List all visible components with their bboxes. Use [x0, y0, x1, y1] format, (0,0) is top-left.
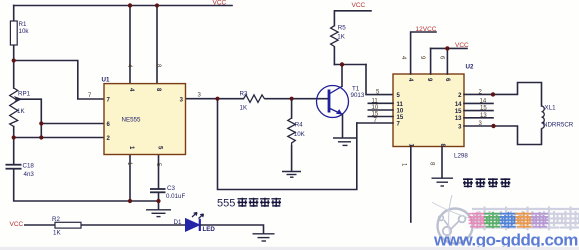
wire pin2: [14, 137, 104, 139]
wire pin8 bottom to ground: [441, 147, 443, 178]
svg-text:R2: R2: [52, 216, 60, 223]
ground under T1 emitter: [333, 138, 356, 145]
svg-text:R4: R4: [295, 122, 303, 129]
ground under U2 pin8: [432, 178, 454, 186]
svg-text:15: 15: [372, 112, 379, 118]
node junction dots: [12, 3, 294, 203]
svg-text:1K: 1K: [17, 108, 25, 115]
watermark gray text 电子发烧友: [472, 207, 579, 231]
svg-text:R1: R1: [19, 21, 27, 28]
wire R5 top to VCC: [334, 11, 371, 26]
wire right pin3 to XL1 bottom: [464, 126, 542, 145]
wire pin1 bottom down: [410, 147, 412, 223]
svg-text:L298: L298: [454, 153, 468, 160]
svg-text:11: 11: [372, 99, 379, 105]
node collector junction: [340, 62, 344, 66]
svg-text:12VCC: 12VCC: [416, 26, 437, 33]
svg-text:14: 14: [455, 102, 462, 108]
wire T1 emitter down to ground: [342, 114, 344, 138]
svg-text:1K: 1K: [53, 230, 61, 237]
svg-text:10: 10: [372, 105, 379, 111]
capacitor C18: [6, 163, 35, 179]
svg-text:VCC: VCC: [10, 221, 24, 228]
svg-text:10K: 10K: [294, 131, 306, 138]
wire 555 pin1 to ground rail: [129, 155, 131, 202]
svg-text:15: 15: [397, 115, 404, 121]
wire 555 pin4 to VCC: [129, 6, 131, 84]
wire R1 bottom lead down to RP1: [13, 45, 15, 88]
wire R5 bottom lead: [333, 47, 335, 65]
wire pin4 to 12VCC: [411, 32, 436, 74]
text 555震荡部分 section label: [217, 198, 281, 210]
wire 555 pin3 output: [186, 98, 244, 100]
watermark logo circle icon: [432, 195, 476, 246]
potentiometer RP1 1K: [10, 88, 31, 127]
svg-text:VCC: VCC: [213, 0, 227, 7]
resistor R2 1K: [52, 216, 81, 237]
wire R4 bottom to ground: [291, 146, 293, 171]
svg-text:1K: 1K: [337, 34, 345, 41]
wire RP1 bottom to C18: [13, 127, 15, 165]
wire T1 collector up: [334, 11, 393, 138]
svg-text:R5: R5: [338, 25, 346, 32]
svg-text:VCC: VCC: [455, 42, 469, 49]
wire collector node horizontal: [334, 64, 366, 66]
svg-text:10k: 10k: [19, 28, 30, 35]
svg-text:0.01uF: 0.01uF: [166, 193, 185, 200]
svg-text:RP1: RP1: [18, 91, 31, 98]
bottom edge band: [0, 247, 579, 250]
capacitor C3 0.01uF: [150, 185, 185, 200]
wire VCC drop to L298 top-left pin: [366, 65, 393, 95]
svg-text:4n3: 4n3: [24, 171, 35, 178]
pin number labels U2 outside: [372, 56, 488, 167]
resistor R5 1K: [331, 25, 347, 47]
wire pin6: [41, 123, 104, 125]
svg-text:R3: R3: [240, 91, 248, 98]
node dots on XL1 net: [491, 92, 495, 96]
IC U2 L298: [393, 64, 474, 160]
svg-text:C18: C18: [23, 163, 35, 170]
svg-text:555: 555: [217, 198, 235, 210]
svg-text:9013: 9013: [351, 92, 365, 99]
wire VCC top rail: [14, 5, 232, 7]
svg-text:13: 13: [480, 113, 487, 119]
wire pin6 up: [446, 48, 448, 74]
wire D1 to ground: [200, 225, 264, 234]
resistor R3 1K: [240, 91, 267, 112]
wire left pin7 stub: [357, 122, 393, 124]
transistor T1 9013: [317, 86, 365, 118]
svg-text:13: 13: [455, 116, 462, 122]
wire right stubs 14 15 13: [464, 102, 493, 104]
wire R4 top lead: [291, 99, 293, 118]
wire C18 bottom to ground rail: [14, 169, 159, 201]
wire RP1 wiper to pin6 net: [16, 99, 41, 137]
svg-text:www.go-gddq.com: www.go-gddq.com: [433, 231, 578, 250]
wire R3 to base: [266, 98, 329, 100]
wire pin9 up: [430, 48, 432, 74]
wire 555 pin8 to VCC: [156, 6, 158, 84]
ground under C3: [146, 210, 171, 217]
wire C3 bottom: [158, 193, 160, 202]
wire VCC to R2: [24, 224, 55, 226]
wire right pin2 to XL1: [464, 83, 542, 107]
wire pin3 down to L298 pin7 run: [218, 99, 357, 190]
svg-text:U2: U2: [466, 64, 474, 71]
pin number labels U1 outside: [88, 64, 202, 167]
wire 555 pin5 to C3: [158, 155, 160, 189]
diode D1 LED: [174, 213, 216, 234]
svg-text:10: 10: [397, 108, 404, 114]
wire branch to pin7: [14, 61, 104, 100]
ground under R4: [282, 172, 301, 178]
svg-text:LED: LED: [203, 226, 216, 233]
svg-text:U1: U1: [102, 77, 110, 84]
svg-text:15: 15: [455, 109, 462, 115]
svg-text:D1: D1: [174, 219, 182, 226]
svg-text:1K: 1K: [240, 105, 248, 112]
watermark colored text 电子发烧友: [469, 212, 549, 229]
wire left pin stubs 11 10 15: [368, 102, 393, 104]
resistor R4 10K: [288, 118, 306, 146]
svg-text:XL1: XL1: [545, 105, 557, 112]
svg-text:VCC: VCC: [352, 2, 366, 9]
wire VCC rail of U2: [431, 47, 467, 49]
svg-text:NE555: NE555: [122, 117, 141, 124]
svg-text:14: 14: [480, 98, 487, 104]
inductor XL1 transducer: [542, 105, 574, 129]
text 发射部分 section label: [463, 178, 510, 187]
wire R2 to D1: [81, 224, 186, 226]
resistor R1 10k: [10, 21, 29, 45]
svg-text:C3: C3: [167, 185, 175, 192]
L298 wires top: [357, 32, 542, 222]
wire ground stem at C3: [158, 201, 160, 210]
wire R1 top lead: [13, 6, 15, 22]
svg-text:11: 11: [397, 102, 404, 108]
IC U1 NE555 timer: [102, 77, 186, 155]
svg-text:NDRR5CR: NDRR5CR: [543, 122, 574, 129]
ground at LED circuit: [253, 234, 275, 241]
svg-text:15: 15: [480, 106, 487, 112]
